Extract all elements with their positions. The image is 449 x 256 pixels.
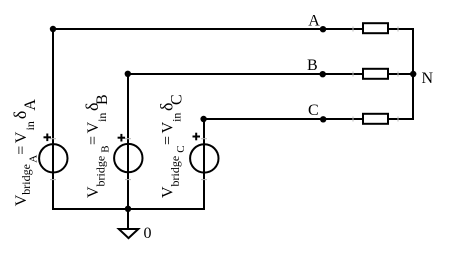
svg-text:A: A [308,13,320,30]
svg-text:C: C [175,145,187,152]
voltage source VbridgeB circle [114,144,142,172]
wire right vertical (A to C via N) [412,28,414,120]
svg-text:V: V [85,186,102,198]
junction dot C corner [200,116,206,122]
svg-text:C: C [168,94,185,105]
wire left vertical A source [52,29,54,209]
svg-text:in: in [169,113,183,122]
svg-text:V: V [159,186,176,198]
wire bottom horizontal [52,208,205,210]
svg-text:C: C [308,102,319,119]
ground symbol triangle [119,229,139,238]
svg-text:=: = [85,136,102,145]
voltage source VbridgeA plus sign [44,134,52,142]
svg-text:=: = [159,136,176,145]
svg-text:B: B [307,57,318,74]
voltage source VbridgeA circle [39,144,67,172]
svg-text:V: V [13,194,30,206]
svg-text:bridge: bridge [168,156,182,187]
junction dot top-left A corner [50,26,56,32]
svg-text:in: in [23,121,37,130]
node N dot [410,71,416,77]
svg-text:B: B [99,145,111,152]
label VbridgeA = Vin deltaA [10,99,40,207]
pin tick marks on resistor leads [50,27,398,180]
svg-text:0: 0 [144,225,152,242]
resistor row C [363,114,388,124]
junction dot ground [125,206,131,212]
voltage source VbridgeC plus sign [193,133,201,141]
wire A row horizontal [53,28,413,30]
resistor row B [363,69,388,79]
svg-text:V: V [13,131,30,143]
svg-text:bridge: bridge [93,156,107,187]
svg-text:=: = [13,146,30,155]
svg-text:N: N [422,70,434,87]
label VbridgeB = Vin deltaB [82,94,112,198]
svg-text:in: in [95,113,109,122]
voltage source VbridgeB plus sign [118,134,126,142]
svg-text:V: V [159,121,176,133]
node A dot [320,26,326,32]
junction dot B corner [125,71,131,77]
wire right vertical C source [203,119,205,209]
wire ground stem [127,209,129,229]
node C dot [320,116,326,122]
voltage source VbridgeC circle [190,144,218,172]
svg-text:A: A [22,99,39,111]
svg-text:bridge: bridge [19,164,33,195]
svg-text:V: V [85,121,102,133]
svg-text:A: A [28,155,40,163]
svg-text:B: B [94,94,111,105]
node B dot [320,71,326,77]
resistor row A [363,23,388,33]
svg-text:δ: δ [10,111,30,119]
label VbridgeC = Vin deltaC [156,94,187,198]
wire middle vertical B source [127,74,129,209]
wire B row horizontal [128,73,413,75]
wire C row horizontal [204,118,413,120]
